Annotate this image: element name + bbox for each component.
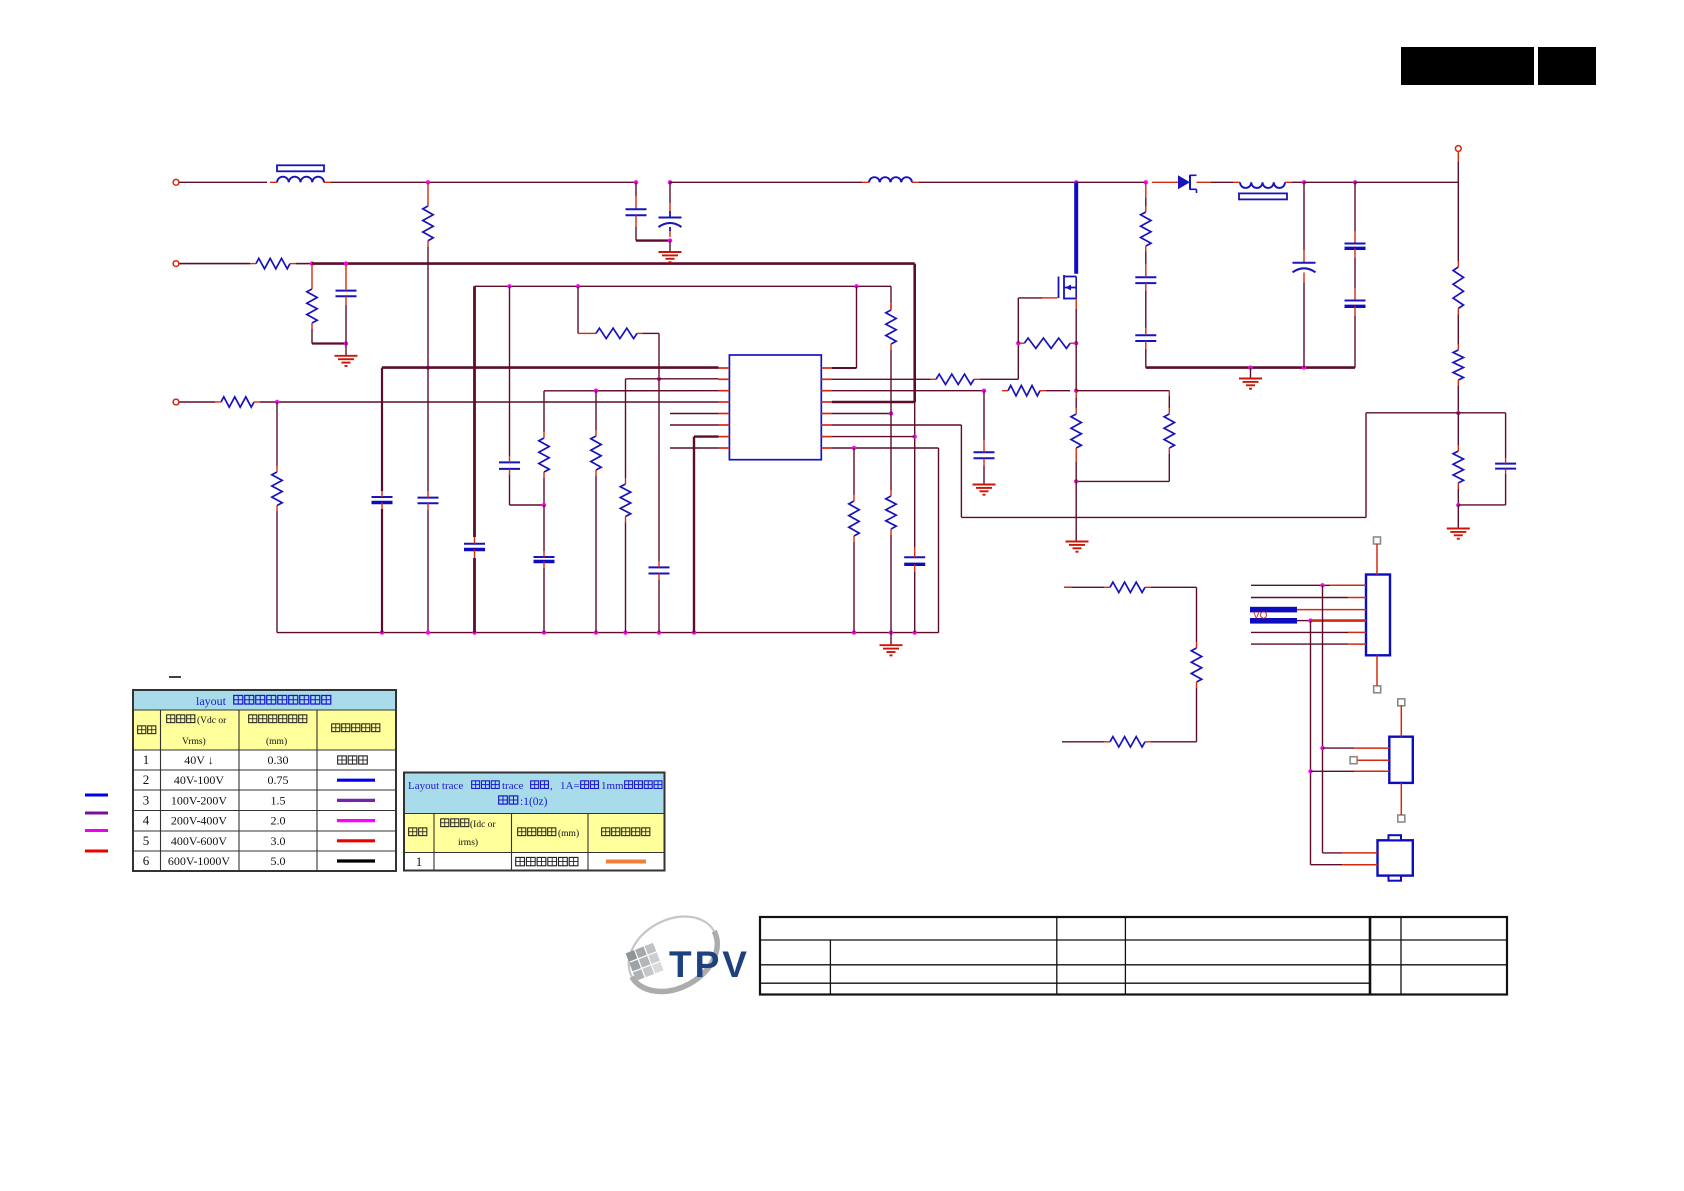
wire R12 to corner [980,378,1018,380]
resistor R23 [1104,582,1151,592]
black redaction box 2 [1538,47,1596,85]
capacitor C11 output [1293,263,1316,273]
wire rail1 seg9 [1355,181,1458,183]
wire x428 down [427,247,429,368]
junction J1-4 [1308,618,1312,622]
wire x1146 down3 [1145,349,1147,368]
svg-text:VO: VO [1253,611,1268,622]
connector J3 body [1378,835,1413,880]
pin U1 left 3 [719,390,730,392]
junction y286 x509 [507,284,511,288]
junction rail3 x277 [275,400,279,404]
transformer T1 secondary coil [1233,182,1292,188]
pin J3-1 lead [1342,852,1378,854]
wire rail1 seg5 [1076,181,1146,183]
svg-text:5: 5 [143,833,150,848]
svg-text:3.0: 3.0 [271,834,286,848]
pin U1 left 4 [719,401,730,403]
TPV logo [615,901,750,1006]
wire x1169 down [1168,396,1170,408]
wire x1018 up [1017,343,1019,379]
wire x659 down [658,333,660,378]
wire x312-x346 bottom [312,342,346,344]
wire x312 down [311,329,313,344]
resistor R6 [590,328,643,338]
resistor R3 [423,200,433,247]
junction x596 y390 [594,389,598,393]
wire sec loop bottom stub [1062,741,1104,743]
wire x1076 down5 [1075,481,1077,541]
capacitor C2 bottom lead [669,227,671,231]
capacitor C15 [904,551,925,572]
wire x938 down [938,448,940,633]
resistor R15 [1164,408,1174,454]
pin J2-1 lead [1354,747,1389,749]
wire x578 down [577,286,579,333]
wire x544 down2 [543,478,545,505]
pin U1 left 5 [719,413,730,415]
op-amp U1 controller IC body [729,355,821,460]
wire x596 down2 [595,476,597,633]
transistor Q1 MOSFET [1059,275,1077,300]
junction bus x625.5 [623,630,627,634]
wire C12 top lead [1354,182,1356,231]
capacitor C9 [649,561,670,580]
wire R6 to x659 [643,332,659,334]
resistor R25 [1104,737,1151,747]
wire output terminal stub [1457,152,1459,162]
wire C1 red lead [635,196,637,209]
wire C2 top lead [669,182,671,203]
wire ground bus [277,632,939,634]
wire x474 thick [473,286,476,537]
resistor R22 divider bottom [1453,445,1463,489]
wire x1076 down2 [1075,343,1077,391]
ground G5 [1066,542,1089,552]
wire G2 stem [669,241,671,252]
wire x891 down3 [890,535,892,633]
wire x1146 down [1145,252,1147,265]
wire x694 thick down [693,437,695,633]
resistor R7 [591,430,601,476]
capacitor C13 output [1345,301,1366,307]
wire L8 net [670,447,719,449]
wire x382 thick down2 [381,509,383,633]
wire x428 stub [427,182,429,200]
capacitor C3 X-cap [336,284,357,305]
wire x984 down [983,391,985,440]
wire vertB [1310,621,1312,865]
wire G1 stem [345,344,347,356]
wire G6 stem [1250,368,1252,379]
resistor R14 [1002,386,1046,396]
pin U1 left 8 [719,447,730,449]
wire x1505 seg2 [1505,474,1507,505]
wire x1146 red2 [1145,264,1147,271]
wire rail1 seg1 [180,181,268,183]
ground G1 [335,356,358,366]
capacitor C7 [499,456,520,475]
wire R7pin net [832,436,915,438]
capacitor C10 [974,446,995,466]
pin U1 right 9 [821,367,832,369]
wire rail1 seg4 [919,181,1076,183]
capacitor C2 polarized [659,218,682,228]
wire x914 down2 [914,572,916,633]
junction rail1 C2 tap [668,180,672,184]
junction bus x428 [426,630,430,634]
terminal input line2 [173,261,179,267]
ground G6 [1239,379,1262,389]
pin J1-1 lead [1330,584,1366,586]
wire G3 stem [890,633,892,646]
wire x428 down2 [427,368,429,491]
wire R8pin net [832,447,939,449]
wire x891 elbow [890,286,892,303]
wire x312 stub [311,264,313,283]
wire rail1 seg7 [1292,181,1304,183]
svg-text:40V ↓: 40V ↓ [184,753,213,767]
pin U1 right 10 [821,378,832,380]
wire x625 down [625,379,627,478]
wire C1 bottom lead [635,227,637,241]
connector J2 body [1389,737,1413,783]
wire C11 red lead [1303,250,1305,263]
wire x1076 down3 [1075,398,1077,408]
wire x984 down2 [983,466,985,484]
resistor R1 inrush [250,258,296,268]
wire J1-1 net [1251,584,1330,586]
wire x428 down3 [427,510,429,633]
wire rail2 thick [312,262,915,265]
wire y481 link [1076,480,1169,482]
wire x961 down [960,425,962,517]
svg-text:5.0: 5.0 [271,854,286,868]
pad J1 top [1374,537,1381,544]
capacitor C17 snubber [1135,328,1156,349]
inductor L1 [862,177,919,182]
wire sec loop top red [1064,586,1072,588]
wire C12 red lead2 [1354,248,1356,258]
pad J2 top [1398,699,1405,706]
junction x891 y413 [889,411,893,415]
wire J2 bottom pin [1400,783,1402,815]
dash mark [169,676,181,678]
wire sec loop top stub [1064,586,1104,588]
wire x596 down [595,391,597,430]
pin J1-5 lead [1348,631,1366,633]
junction rail1 x428 [426,180,430,184]
wire C2 red lead [669,203,671,211]
resistor R24 [1191,642,1201,688]
wire R14 to source [1046,390,1070,392]
wire rail1 seg8 [1304,181,1355,183]
junction bus x659 [657,630,661,634]
wire rail3 seg2 [260,401,719,403]
capacitor C6 [464,537,485,558]
wire x625 down2 [625,523,627,633]
pin U1 left 7 [719,436,730,438]
pin U1 left 6 [719,424,730,426]
wire L6 net [670,424,719,426]
wire x1458 gnd stem [1457,505,1459,528]
junction x428 y368 [426,365,430,369]
ground G3 [880,645,903,655]
junction bus x544 [542,630,546,634]
svg-text:400V-600V: 400V-600V [171,834,228,848]
wire R1pin net [832,367,857,369]
pin J1-6 lead [1348,643,1366,645]
svg-text::1(0z): :1(0z) [520,796,548,808]
wire x509 jog [510,504,545,506]
junction bus x914.7 [913,630,917,634]
wire x1458 seg4 [1457,413,1459,445]
wire R2pin net [832,378,930,380]
wire y517 sense [961,516,1366,518]
svg-text:1: 1 [416,854,423,869]
ground G2 [659,252,682,262]
wire rail3 seg1 [180,401,216,403]
wire x891 red [890,303,892,310]
wire R4pin thick [832,401,915,404]
transformer T1 secondary core bar [1239,193,1287,199]
title block [760,917,1507,995]
terminal input line3 [173,399,179,405]
svg-text:4: 4 [143,813,150,828]
table layout voltage/clearance [133,690,396,871]
wire R5pin net [832,413,891,415]
wire J1-5 net [1251,631,1348,633]
junction C2 gnd [668,238,672,242]
svg-text:(mm): (mm) [266,736,287,747]
wire x984 red lead [983,440,985,446]
wire x277 down2 [276,512,278,633]
wire J1 bottom pin [1376,655,1378,686]
junction vertB J2-3 [1308,769,1312,773]
wire C11 red lead2 [1303,273,1305,284]
resistor R2 [307,283,317,329]
svg-text:Vrms): Vrms) [182,736,206,747]
junction rail2 x312 [310,261,314,265]
pad J1 bottom [1374,686,1381,693]
junction y286 x856 [854,284,858,288]
junction y286 x578 [576,284,580,288]
junction bus x596 [594,630,598,634]
node VO bus bar lower [1250,618,1297,624]
wire J3-1 net [1323,852,1343,854]
wire x1458 seg3 [1457,386,1459,413]
pin J3-2 lead [1342,864,1378,866]
wire x544 down [543,391,545,432]
wire x509 down [509,286,511,456]
wire x1146 stub2 [1145,198,1147,206]
junction x1018 y343 [1016,341,1020,345]
resistor R10 [886,304,896,350]
node VO bus bar upper [1250,607,1297,613]
wire x1146 stub [1145,182,1147,198]
wire x277 down [276,402,278,466]
wire J2-3 net [1311,770,1355,772]
wire C13 bottom lead [1354,316,1356,368]
svg-text:Layout trace: Layout trace [408,780,463,792]
black redaction box 1 [1401,47,1534,85]
resistor R21 divider mid [1453,344,1463,386]
wire C1 red lead2 [635,215,637,227]
junction sec rail C11 [1302,365,1306,369]
svg-text:irms): irms) [458,837,478,848]
wire x891 down2 [890,414,892,491]
junction x914 y436 [913,434,917,438]
capacitor C1 [626,209,647,215]
capacitor C8 [534,551,555,568]
wire x1505 seg1 [1505,413,1507,458]
junction rail1 Q1 drain [1074,180,1078,184]
wire vertA [1322,585,1324,853]
wire Q1 drain thick [1074,182,1078,273]
svg-text:trace: trace [502,780,523,792]
wire x856 up [856,286,858,368]
junction x1076 y343 [1074,341,1078,345]
svg-text:TPV: TPV [669,944,750,985]
svg-text:1.5: 1.5 [271,793,286,807]
wire x1458 seg1 [1457,162,1459,261]
wire x914 down [914,402,916,547]
svg-text:(Idc or: (Idc or [470,819,496,830]
junction x544 y505 [542,503,546,507]
svg-text:200V-400V: 200V-400V [171,814,228,828]
wire x509 down2 [509,475,511,505]
junction rail1 snubber tap [1144,180,1148,184]
wire C13 red lead [1354,288,1356,301]
wire x1018 up2 [1017,298,1019,343]
wire x1169 stub [1168,391,1170,396]
resistor R9 [539,432,549,478]
svg-text:40V-100V: 40V-100V [174,773,225,787]
capacitor C14 feedback [1495,458,1516,474]
svg-text:2.0: 2.0 [271,814,286,828]
wire x914 thick up [913,264,916,402]
legend sample red [85,850,108,853]
wire rail1 seg6 [1211,181,1233,183]
terminal input line1 [173,179,179,185]
pin U1 right 15 [821,436,832,438]
wire y505 link [1458,504,1505,506]
capacitor C12 output [1345,244,1366,249]
junction x659 y379 [657,377,661,381]
wire L2 net [626,378,719,380]
wire C11 top lead [1303,182,1305,250]
wire J1-4 trace marked [1311,619,1366,622]
junction rail1 C12 tap [1353,180,1357,184]
pin U1 right 12 [821,401,832,403]
wire J2 top pin [1400,706,1402,737]
capacitor C5 [372,491,393,509]
wire gate red lead [1042,297,1058,299]
ground G4 [973,485,996,495]
junction J1-1 [1320,583,1324,587]
pin U1 right 16 [821,447,832,449]
table layout trace current/width [404,773,665,871]
svg-text:(Vdc or: (Vdc or [197,715,227,726]
svg-text:1mm: 1mm [601,780,624,792]
junction bus x891 [889,630,893,634]
wire L3 net [544,390,719,392]
wire x1169 down2 [1168,454,1170,481]
connector J1 body [1366,575,1390,656]
svg-text:,: , [550,780,553,792]
svg-text:3: 3 [143,792,150,807]
transformer T1 primary coil [270,177,331,183]
pin J1-2 lead [1348,597,1366,599]
wire x1076 down [1075,309,1077,343]
pad J2-2 [1350,757,1357,764]
wire C13 red lead2 [1354,306,1356,316]
wire D1 cathode lead [1197,181,1212,183]
svg-text:1A=: 1A= [560,780,580,792]
wire D1 anode lead [1152,181,1178,183]
wire C1C2 bottom bar [636,239,670,241]
capacitor C16 snubber [1135,271,1156,291]
resistor R17 source sense [1071,408,1081,454]
svg-text:600V-1000V: 600V-1000V [168,854,231,868]
wire x914 red lead [914,547,916,551]
wire J3-2 net [1311,864,1343,866]
wire C1 top lead [635,182,637,196]
legend sample magenta [85,829,108,832]
wire J1-4 link [1297,620,1311,622]
wire x1146 down2 [1145,291,1147,328]
capacitor C2 polarized top lead [669,211,671,218]
resistor R11 [886,490,896,535]
wire J1-6 net [1251,643,1348,645]
junction sec rail gnd [1248,365,1252,369]
wire x1196 down2 [1196,688,1198,742]
wire rail1 seg3 [670,181,862,183]
junction x984 y390 [982,389,986,393]
wire sec loop bottom2 [1151,741,1197,743]
wire y413 feedback [1366,412,1506,414]
wire C12 red lead [1354,231,1356,244]
wire x1366 drop [1365,413,1367,518]
wire rail1 seg2 [331,181,636,183]
junction x1076 y390 [1074,389,1078,393]
resistor R18 snubber [1141,206,1151,252]
junction bus x474.5 [472,630,476,634]
junction x1458 y505 [1456,503,1460,507]
pad J2 bottom [1398,815,1405,822]
transformer T1 core bar [277,165,324,171]
wire x1458 seg5 [1457,489,1459,505]
junction x1458 y413 [1456,411,1460,415]
wire R6pin net [832,424,961,426]
pin J1-3 lead [1297,609,1366,611]
junction x346 y343 [344,341,348,345]
svg-text:1: 1 [143,752,150,767]
wire x891 down [890,350,892,414]
wire x659 down3 [658,580,660,633]
wire J1-2 net [1251,597,1348,599]
wire rail2 seg2 [296,263,312,265]
wire x1076 red lead3 [1075,454,1077,462]
wire rail2 seg1 [180,263,251,265]
svg-text:2: 2 [143,772,150,787]
resistor R8 [620,478,630,523]
pin U1 left 1 [719,367,730,369]
terminal output VO+ [1455,146,1461,152]
svg-text:0.75: 0.75 [268,773,289,787]
svg-text:(mm): (mm) [558,828,579,839]
resistor R16 [849,495,859,542]
